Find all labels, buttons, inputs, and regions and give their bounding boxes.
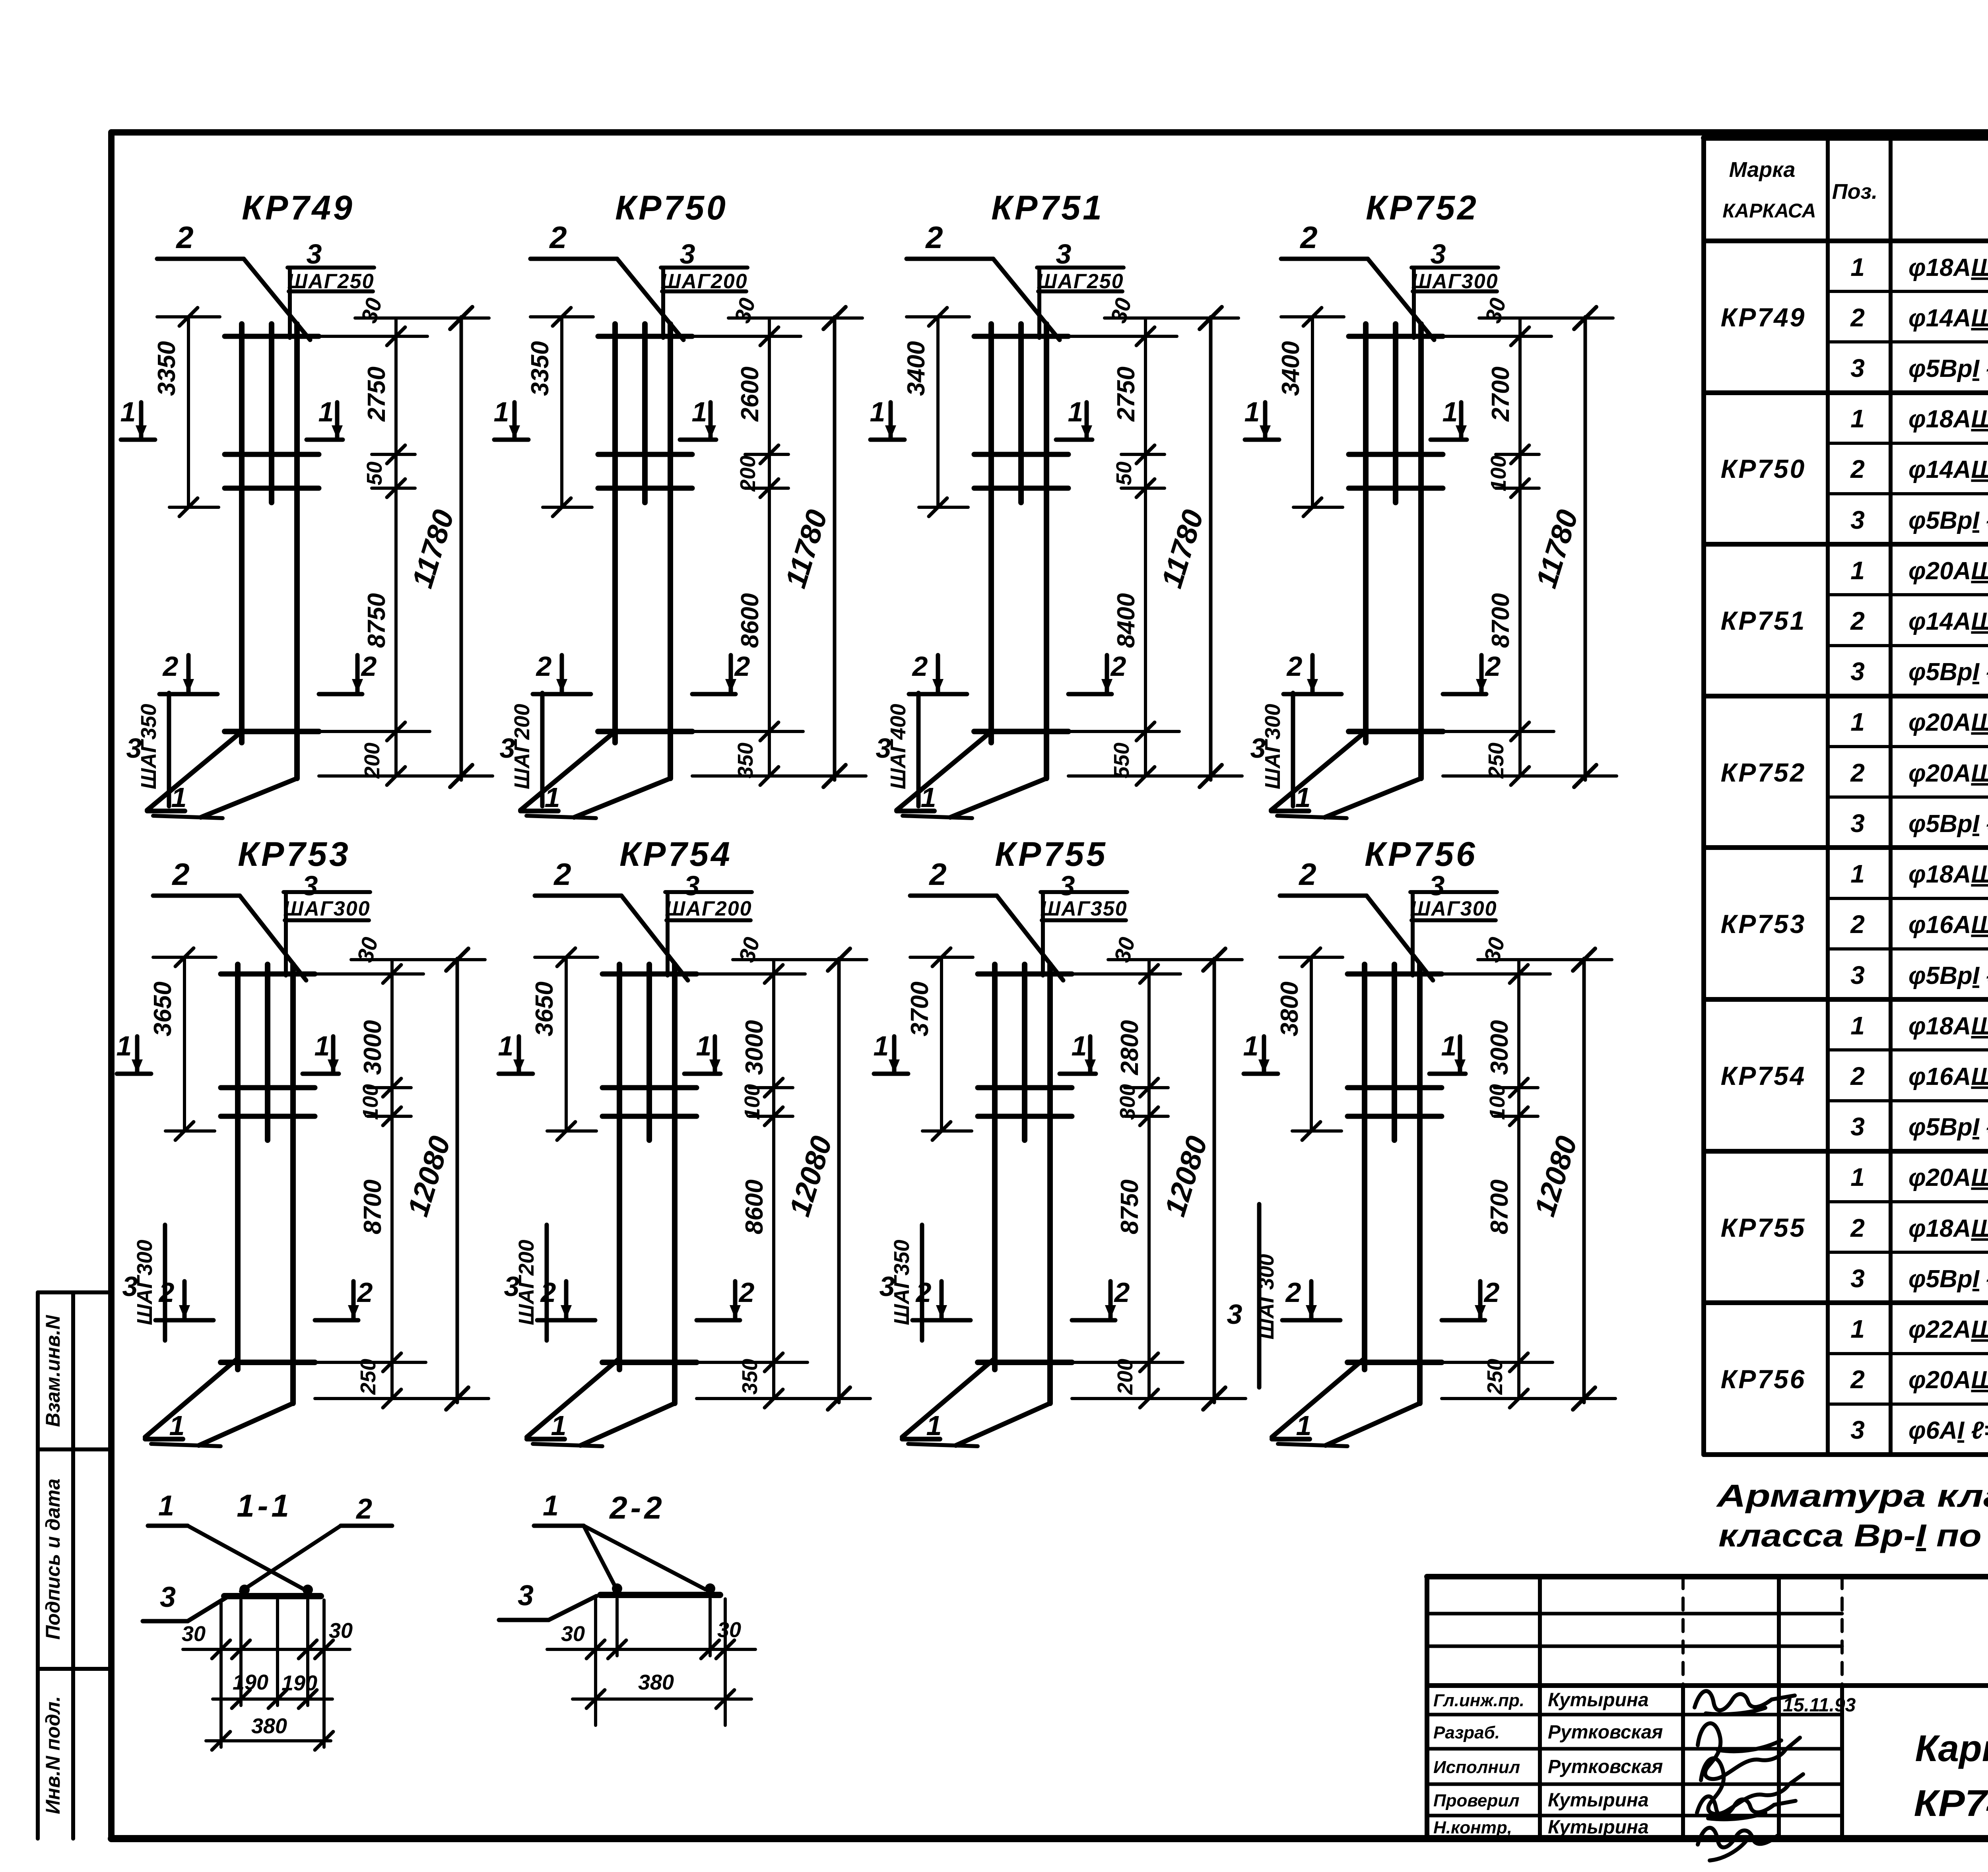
stirrup pos.3 middle a [221,1085,315,1090]
bar dot right [705,1583,715,1594]
rebar pos.2 middle bar [646,964,652,1140]
svg-text:3: 3 [160,1581,176,1613]
svg-text:2600: 2600 [736,367,764,422]
rebar pos.2 middle bar [265,964,270,1140]
rebar pos.1 left bar [239,324,245,743]
svg-text:КР752: КР752 [1721,758,1806,787]
bar bend foot left [520,731,615,810]
cage drawing КР754 [498,835,870,1446]
svg-text:3800: 3800 [1276,982,1303,1036]
svg-text:1: 1 [158,1490,174,1522]
svg-text:КР753: КР753 [238,835,351,873]
svg-text:380: 380 [638,1670,674,1694]
leader label 3 bottom ШАГ300 [1257,1204,1262,1387]
svg-text:Арматура класса А-Ш и А-I по Г: Арматура класса А-Ш и А-I по ГОСТ 5781-8… [1716,1478,1988,1513]
svg-text:1: 1 [543,1490,559,1522]
svg-text:1: 1 [1850,404,1865,433]
cage drawing КР755 [874,835,1246,1446]
svg-text:1: 1 [1850,859,1865,888]
svg-text:КР751: КР751 [991,189,1104,227]
svg-text:КР750: КР750 [615,189,728,227]
rebar pos.1 left bar [612,324,618,743]
svg-text:2: 2 [738,1277,755,1308]
stirrup pos.3 middle a [1349,452,1443,457]
svg-text:3: 3 [518,1580,534,1612]
stirrup pos.3 bottom [221,1360,315,1365]
svg-text:8400: 8400 [1112,593,1140,648]
rebar pos.1 left bar [235,964,241,1370]
svg-text:Исполнил: Исполнил [1433,1758,1520,1777]
svg-text:КР749...КР756: КР749...КР756 [1914,1782,1988,1824]
rebar pos.1 left bar [988,324,994,743]
note: reinforcement classes [1716,1478,1988,1553]
svg-text:2: 2 [361,651,377,682]
dimension 12080 overall [1582,958,1586,1403]
svg-text:КР755: КР755 [1721,1213,1806,1242]
svg-text:30: 30 [182,1622,206,1646]
svg-text:ШАГ300: ШАГ300 [283,897,370,920]
svg-text:1: 1 [874,1030,889,1061]
leader label 3 bottom ШАГ200 [545,1225,549,1340]
svg-text:2: 2 [536,651,552,682]
svg-text:φ18АШ ℓ=12080: φ18АШ ℓ=12080 [1908,861,1988,888]
svg-text:2: 2 [1850,303,1865,332]
svg-text:2: 2 [549,220,567,255]
dimension 190 190 [213,1697,332,1701]
bar bend foot left [145,1358,238,1437]
svg-text:ШАГ200: ШАГ200 [665,897,752,920]
svg-text:φ16АШ ℓ=3650: φ16АШ ℓ=3650 [1908,911,1988,939]
cage drawing КР756 [1227,835,1615,1446]
svg-text:15.11.93: 15.11.93 [1783,1695,1856,1716]
svg-text:1: 1 [1441,1030,1457,1061]
svg-text:1: 1 [318,396,334,427]
svg-text:1: 1 [1068,396,1083,427]
svg-text:КР752: КР752 [1366,189,1479,227]
stirrup pos.3 top [978,972,1072,977]
svg-text:Поз.: Поз. [1832,180,1877,204]
svg-text:КР754: КР754 [619,835,732,873]
extension lines [219,1600,223,1747]
dimension 11780 overall [1209,317,1213,780]
svg-text:2: 2 [928,857,946,892]
svg-text:2: 2 [171,857,189,892]
cage drawing КР753 [116,835,489,1446]
leader line 2 to bar [241,1526,341,1591]
svg-text:ШАГ300: ШАГ300 [1254,1254,1278,1339]
svg-text:3: 3 [879,1271,895,1302]
stirrup bar section [224,1593,321,1599]
svg-text:φ5ВрI ℓ=380: φ5ВрI ℓ=380 [1908,355,1988,382]
segment dimension line [772,960,775,1399]
rebar pos.1 left bar [992,964,998,1370]
stirrup pos.3 middle b [598,486,692,491]
svg-text:3400: 3400 [903,341,930,396]
leader lines to bars [584,1526,617,1590]
stirrup bar section [600,1592,720,1598]
section view 2-2 [499,1490,755,1725]
bar bend foot right [201,778,297,817]
svg-text:1: 1 [120,396,136,427]
svg-text:1: 1 [171,782,187,813]
dimension 3400 left [1311,317,1314,507]
svg-text:2: 2 [355,1493,372,1525]
svg-text:1: 1 [870,396,885,427]
svg-text:1: 1 [545,782,560,813]
title block grid [1427,1577,1988,1839]
svg-text:2750: 2750 [363,367,390,422]
svg-text:3: 3 [126,733,142,764]
dimension 3800 left [1310,957,1313,1131]
table header texts [1722,158,1988,242]
svg-text:2: 2 [1850,455,1865,483]
svg-text:30: 30 [329,1619,353,1643]
svg-text:φ18АШ ℓ=11780: φ18АШ ℓ=11780 [1908,254,1988,281]
svg-text:350: 350 [738,1359,762,1395]
cage drawing КР751 [870,189,1242,818]
svg-text:Проверил: Проверил [1433,1791,1519,1810]
svg-text:3350: 3350 [526,341,554,396]
svg-text:2: 2 [1285,1277,1301,1308]
svg-text:φ14АШ ℓ=3350: φ14АШ ℓ=3350 [1908,305,1988,332]
dimension 380 [206,1739,331,1742]
svg-text:100: 100 [1485,1084,1509,1120]
svg-text:30: 30 [561,1622,585,1646]
bar bend foot left [527,1358,619,1437]
svg-text:2: 2 [925,220,943,255]
leader label 3 bottom ШАГ200 [540,693,545,806]
stirrup pos.3 top [1349,334,1443,339]
svg-text:3000: 3000 [359,1020,386,1075]
svg-text:φ5ВрI ℓ=380: φ5ВрI ℓ=380 [1908,507,1988,534]
svg-text:1: 1 [116,1030,132,1061]
svg-text:φ20АШ ℓ=3400: φ20АШ ℓ=3400 [1908,760,1988,787]
stirrup pos.3 top [225,334,319,339]
rebar pos.2 middle bar [1018,324,1024,502]
rebar pos.1 right bar [1418,324,1424,778]
svg-text:КР749: КР749 [242,189,355,227]
svg-text:φ18АШ ℓ=12080: φ18АШ ℓ=12080 [1908,1013,1988,1040]
svg-text:3: 3 [1850,1264,1865,1293]
rebar pos.1 right bar [294,324,300,778]
svg-text:ШАГ350: ШАГ350 [1040,897,1127,920]
svg-text:2: 2 [553,857,571,892]
svg-text:190: 190 [233,1670,268,1694]
svg-text:Инв.N подл.: Инв.N подл. [42,1696,64,1814]
rebar pos.1 right bar [668,324,673,778]
svg-text:50: 50 [1112,462,1136,485]
svg-text:1: 1 [494,396,509,427]
svg-text:1-1: 1-1 [237,1488,292,1523]
svg-text:8750: 8750 [1116,1179,1143,1234]
segment dimension line [768,318,771,776]
svg-text:КР754: КР754 [1721,1061,1806,1090]
extension lines [594,1599,597,1725]
svg-text:3000: 3000 [741,1020,768,1075]
svg-text:30: 30 [717,1618,741,1642]
rebar pos.1 right bar [1417,964,1423,1403]
svg-text:КАРКАСА: КАРКАСА [1722,200,1816,222]
stirrup pos.3 middle a [974,452,1068,457]
segment dimension line [1517,960,1520,1399]
table group КР749 [1721,253,1988,382]
dimension 3650 left [565,957,568,1131]
svg-text:2: 2 [912,651,928,682]
svg-text:2: 2 [734,651,750,682]
stirrup pos.3 middle b [221,1114,315,1119]
svg-text:3: 3 [876,733,891,764]
svg-text:2800: 2800 [1116,1020,1143,1075]
rebar pos.2 middle bar [1022,964,1027,1140]
rebar pos.1 right bar [1047,964,1053,1403]
svg-text:1: 1 [926,1410,942,1441]
dimension 30 left [547,1648,755,1651]
svg-text:2: 2 [1299,220,1317,255]
bar bend foot left [1271,731,1366,810]
leader label 3 bottom ШАГ300 [163,1225,167,1340]
stirrup pos.3 middle a [602,1085,697,1090]
table group КР750 [1721,404,1988,534]
stirrup pos.3 top [221,972,315,977]
stirrup pos.3 top [598,334,692,339]
svg-text:Кутырина: Кутырина [1548,1790,1649,1811]
leader line 1 to bar [188,1526,308,1591]
svg-text:3: 3 [1850,809,1865,838]
rebar pos.1 right bar [1044,324,1049,778]
rebar pos.1 right bar [290,964,296,1403]
svg-text:КР750: КР750 [1721,454,1806,483]
svg-text:Рутковская: Рутковская [1548,1722,1663,1743]
bar bend foot right [956,1403,1050,1445]
svg-text:100: 100 [1487,456,1510,491]
svg-text:3: 3 [680,239,695,270]
svg-text:2: 2 [1850,607,1865,635]
stirrup pos.3 bottom [598,729,692,734]
svg-text:190: 190 [282,1671,317,1695]
svg-text:φ20АШ ℓ=3800: φ20АШ ℓ=3800 [1908,1366,1988,1394]
segment dimension line [1144,318,1147,776]
section view 1-1 [143,1488,392,1750]
dimension 3350 left [560,317,563,507]
leader label 3 bottom ШАГ350 [167,693,171,806]
cage drawing КР752 [1244,189,1617,818]
svg-text:1: 1 [1850,253,1865,281]
svg-text:класса Вр-I по ГОСТ 6727-80: класса Вр-I по ГОСТ 6727-80 [1718,1518,1988,1553]
svg-text:φ5ВрI ℓ=380: φ5ВрI ℓ=380 [1908,658,1988,686]
svg-text:250: 250 [1483,1359,1507,1395]
svg-text:2: 2 [1850,1365,1865,1394]
svg-text:1: 1 [551,1410,567,1441]
svg-text:КР751: КР751 [1721,606,1806,635]
svg-text:2: 2 [1298,857,1316,892]
svg-text:3: 3 [1060,870,1075,901]
rebar pos.2 middle bar [642,324,648,502]
rebar pos.1 right bar [672,964,678,1403]
leader label 3 bottom ШАГ400 [916,693,921,806]
stirrup pos.3 bottom [225,729,319,734]
svg-text:1: 1 [1850,1011,1865,1040]
table group КР751 [1721,556,1988,686]
margin strip boxes [38,1292,111,1839]
svg-text:3: 3 [1429,870,1445,901]
dimension 3400 left [936,317,940,507]
svg-text:8600: 8600 [741,1179,768,1234]
svg-text:100: 100 [740,1084,764,1120]
dimension 11780 overall [460,317,463,780]
svg-text:2: 2 [175,220,193,255]
dimension 11780 overall [833,317,837,780]
svg-text:1: 1 [1244,396,1260,427]
svg-text:3: 3 [1056,239,1072,270]
svg-text:2: 2 [1110,651,1126,682]
svg-text:2: 2 [1850,910,1865,939]
bar bend foot right [950,778,1046,817]
rebar pos.1 left bar [617,964,622,1370]
dimension 30 left [183,1648,350,1651]
table group КР756 [1721,1315,1988,1444]
bar dot left [239,1585,250,1595]
svg-text:φ20АШ ℓ=12080: φ20АШ ℓ=12080 [1908,1164,1988,1191]
signatures [1695,1691,1803,1860]
dimension 3650 left [183,957,186,1131]
rebar pos.1 left bar [1363,324,1369,743]
svg-text:φ22АШ ℓ=12080: φ22АШ ℓ=12080 [1908,1316,1988,1343]
svg-text:3: 3 [1850,506,1865,534]
svg-text:Каркас плоский: Каркас плоский [1915,1727,1988,1769]
svg-text:2: 2 [1483,1277,1500,1308]
svg-text:3: 3 [1850,1112,1865,1141]
svg-text:1: 1 [1243,1030,1259,1061]
bar bend foot left [147,731,242,810]
stirrup pos.3 top [1347,972,1442,977]
svg-text:2750: 2750 [1112,367,1140,422]
stirrup pos.3 bottom [1349,729,1443,734]
title block signatures area [1433,1690,1856,1838]
svg-text:3: 3 [1431,239,1446,270]
table group КР752 [1721,708,1988,838]
svg-text:1: 1 [1850,1315,1865,1343]
svg-text:350: 350 [734,743,757,778]
bar bend foot right [199,1403,293,1445]
svg-text:φ14АШ ℓ=3400: φ14АШ ℓ=3400 [1908,608,1988,635]
bar bend foot left [1272,1358,1365,1437]
svg-text:3: 3 [1850,961,1865,989]
svg-text:φ5ВрI ℓ=380: φ5ВрI ℓ=380 [1908,1114,1988,1141]
stirrup pos.3 bottom [602,1360,697,1365]
stirrup pos.3 top [974,334,1068,339]
svg-text:1: 1 [692,396,707,427]
dimension 12080 overall [1213,958,1216,1403]
stirrup pos.3 middle a [1347,1085,1442,1090]
svg-text:КР756: КР756 [1365,835,1477,873]
svg-text:550: 550 [1110,743,1134,778]
svg-text:50: 50 [363,462,386,485]
svg-text:2-2: 2-2 [609,1490,665,1525]
svg-text:2: 2 [1485,651,1501,682]
svg-text:1: 1 [696,1030,712,1061]
svg-text:1: 1 [498,1030,514,1061]
segment dimension line [1147,960,1151,1399]
svg-text:3: 3 [303,870,318,901]
svg-text:3000: 3000 [1486,1020,1513,1075]
svg-text:Н.контр,: Н.контр, [1433,1818,1512,1837]
stirrup pos.3 middle b [225,486,319,491]
specification table grid [1704,138,1988,1455]
rebar pos.2 middle bar [1393,324,1398,502]
svg-text:1: 1 [1295,782,1311,813]
leader label 3 bottom ШАГ350 [920,1225,924,1340]
bar dot right [303,1585,313,1595]
svg-text:3350: 3350 [153,341,181,396]
stirrup pos.3 bottom [978,1360,1072,1365]
bar dot left [612,1583,622,1594]
bar bend foot right [580,1403,675,1445]
svg-text:КР753: КР753 [1721,909,1806,939]
svg-text:КР755: КР755 [995,835,1108,873]
svg-text:φ18АШ ℓ=11780: φ18АШ ℓ=11780 [1908,405,1988,433]
svg-text:φ20АШ ℓ=11780: φ20АШ ℓ=11780 [1908,557,1988,585]
svg-text:φ6АI ℓ=380: φ6АI ℓ=380 [1908,1417,1988,1444]
svg-text:3: 3 [1850,354,1865,382]
table group КР755 [1721,1163,1988,1293]
svg-text:2: 2 [1850,1214,1865,1242]
svg-text:8600: 8600 [736,593,764,648]
svg-text:Кутырина: Кутырина [1548,1817,1649,1838]
dimension 11780 overall [1584,317,1587,780]
svg-text:1: 1 [1442,396,1458,427]
bar bend foot left [902,1358,995,1437]
stirrup pos.3 middle b [974,486,1068,491]
svg-text:3650: 3650 [149,982,177,1036]
svg-text:8700: 8700 [359,1179,386,1234]
table group КР754 [1721,1011,1988,1141]
svg-text:ШАГ300: ШАГ300 [1410,897,1497,920]
svg-text:1: 1 [1850,556,1865,585]
svg-text:Кутырина: Кутырина [1548,1690,1649,1711]
segment dimension line [1518,318,1522,776]
cage drawing КР750 [494,189,866,818]
svg-text:8700: 8700 [1486,1179,1513,1234]
svg-text:2: 2 [357,1277,373,1308]
svg-text:3: 3 [1850,657,1865,686]
svg-text:2: 2 [1850,758,1865,787]
stirrup pos.3 middle b [1349,486,1443,491]
stirrup pos.3 middle a [978,1085,1072,1090]
svg-text:1: 1 [921,782,936,813]
svg-text:Разраб.: Разраб. [1433,1723,1500,1742]
svg-text:250: 250 [1484,743,1508,779]
svg-text:3: 3 [684,870,700,901]
svg-text:2700: 2700 [1487,367,1514,422]
svg-text:φ20АШ ℓ=11780: φ20АШ ℓ=11780 [1908,709,1988,736]
svg-text:φ16АШ ℓ=3650: φ16АШ ℓ=3650 [1908,1063,1988,1090]
svg-text:1: 1 [1850,1163,1865,1191]
bar bend foot right [1326,1403,1420,1445]
dimension 3700 left [940,957,943,1131]
svg-text:1: 1 [169,1410,185,1441]
segment dimension line [390,960,394,1399]
svg-text:Гл.инж.пр.: Гл.инж.пр. [1433,1691,1524,1710]
svg-text:1: 1 [1850,708,1865,736]
svg-text:φ5ВрI ℓ=380: φ5ВрI ℓ=380 [1908,810,1988,838]
svg-text:3400: 3400 [1277,341,1305,396]
svg-text:250: 250 [356,1359,380,1395]
svg-text:3: 3 [122,1271,138,1302]
stirrup pos.3 bottom [974,729,1068,734]
bar bend foot left [897,731,991,810]
stirrup pos.3 top [602,972,697,977]
segment dimension line [394,318,398,776]
